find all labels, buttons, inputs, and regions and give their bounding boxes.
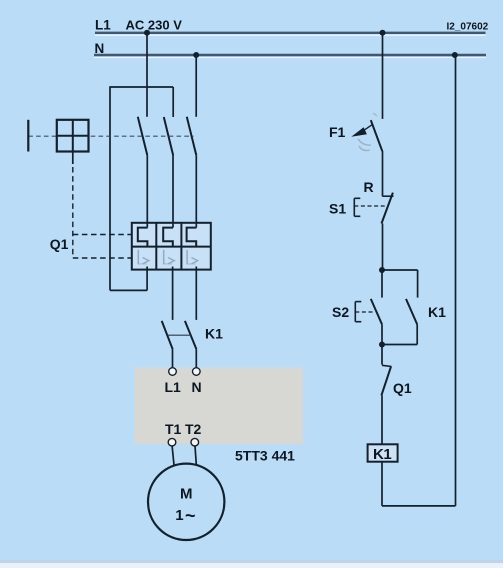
node: branch top xyxy=(379,267,385,273)
svg-text:S1: S1 xyxy=(329,201,346,217)
breaker F1 blade xyxy=(371,120,383,151)
svg-text:M: M xyxy=(180,486,193,503)
svg-text:Q1: Q1 xyxy=(50,236,69,252)
wire: L1 drop to pole 1 xyxy=(146,33,148,117)
S1 fixed contact tick xyxy=(383,195,394,197)
breaker Q1 pole 3 blade xyxy=(187,117,197,156)
wire: left bypass vertical xyxy=(109,86,111,290)
svg-text:F1: F1 xyxy=(329,124,346,140)
wire: top bus of breaker xyxy=(110,86,173,88)
coil K1 box xyxy=(368,444,398,461)
svg-text:N: N xyxy=(95,41,105,56)
thermal element pole 2 xyxy=(163,228,173,247)
svg-text:T1: T1 xyxy=(165,421,182,437)
wire: bypass bottom horizontal xyxy=(110,289,147,291)
wire: F1 to S1 xyxy=(382,151,384,196)
wire: pole 1 to trip block xyxy=(146,155,148,227)
svg-text:~: ~ xyxy=(185,506,196,526)
breaker Q1 pole 2 blade xyxy=(164,117,173,156)
trip block row divider xyxy=(132,246,211,248)
S2 actuator xyxy=(355,302,361,322)
wire: S2 bottom xyxy=(381,324,383,344)
node: L1 tap main circuit xyxy=(144,30,150,36)
K1 aux blade (NO) xyxy=(406,299,417,325)
breaker F1 mechanism sketch xyxy=(358,113,377,151)
power rail L1 xyxy=(95,33,486,36)
S2 actuator dashed link xyxy=(355,311,375,313)
wire: pole 2 to trip block xyxy=(172,156,174,228)
breaker F1 trip arrow xyxy=(351,127,367,137)
svg-text:T2: T2 xyxy=(185,421,202,437)
trip link dashed upper xyxy=(73,234,132,236)
wire: S2 top stub xyxy=(381,270,383,298)
wire: pole 1 block exit to loop xyxy=(146,267,148,291)
Q1 aux fixed tick xyxy=(382,365,392,366)
svg-text:K1: K1 xyxy=(205,326,223,342)
thermal element pole 3 xyxy=(187,228,197,247)
mechanical linkage dashed xyxy=(28,135,193,137)
node: L1 tap control xyxy=(380,30,386,36)
S2 blade (NO) xyxy=(371,299,382,325)
wire: S1 to branch node xyxy=(382,224,384,271)
wire: coil to bottom xyxy=(381,462,383,506)
svg-text:1: 1 xyxy=(175,507,183,524)
svg-text:K1: K1 xyxy=(428,304,446,320)
svg-text:Q1: Q1 xyxy=(393,380,412,396)
terminal T2 circle xyxy=(191,438,199,446)
node: N tap main circuit xyxy=(193,52,199,58)
svg-text:5TT3 441: 5TT3 441 xyxy=(235,448,295,464)
wire: K1 aux bottom xyxy=(416,324,418,344)
operator drop solid xyxy=(72,152,74,165)
breaker Q1 pole 1 blade xyxy=(138,117,148,156)
wire: control drop from L1 xyxy=(382,33,384,119)
wire: pole 2 block exit xyxy=(172,267,174,320)
magnetic trip I> pole 2 xyxy=(164,250,175,264)
wire: branch bottom horizontal xyxy=(382,344,417,346)
svg-text:N: N xyxy=(192,379,202,395)
trip block column divider 2 xyxy=(180,223,182,270)
operator drop dashed xyxy=(72,167,74,258)
trip block column divider 1 xyxy=(155,223,157,270)
wire: bottom return horizontal xyxy=(382,505,456,507)
S1 blade (NC) xyxy=(382,193,393,224)
terminal N circle xyxy=(193,368,201,376)
node: N tap control xyxy=(452,52,458,58)
svg-text:R: R xyxy=(364,179,374,195)
wire: T2 to motor xyxy=(195,446,196,465)
motor M circle xyxy=(148,464,224,540)
trip link dashed lower xyxy=(73,257,132,259)
wire: branch top horizontal xyxy=(382,269,418,271)
wire: N drop to pole 3 xyxy=(195,55,197,117)
trip block body xyxy=(132,223,211,270)
terminal T1 circle xyxy=(168,438,176,446)
power rail N xyxy=(94,55,486,58)
terminal L1 circle xyxy=(169,368,177,376)
wire: pole 2 top stub xyxy=(172,87,174,117)
svg-text:S2: S2 xyxy=(332,304,349,320)
wire: pole 3 block exit xyxy=(195,267,197,320)
trip block outline xyxy=(132,223,211,270)
wire: T1 to motor xyxy=(172,446,174,465)
contactor K1 pole N blade xyxy=(185,321,197,349)
gray device box 5TT3 441 xyxy=(134,367,303,443)
magnetic trip I> pole 3 xyxy=(187,250,198,264)
svg-text:L1: L1 xyxy=(165,379,182,395)
linkage end bar xyxy=(27,120,29,152)
breaker F1 arrow tail xyxy=(364,125,372,130)
node: branch bottom xyxy=(379,342,385,348)
thermal element pole 1 xyxy=(138,228,148,247)
magnetic trip I> pole 1 xyxy=(138,250,149,264)
svg-text:K1: K1 xyxy=(373,446,391,463)
wire: K1 pole N to terminal xyxy=(195,349,197,367)
contactor K1 pole L blade xyxy=(162,321,173,349)
wire: pole 3 to trip block xyxy=(195,155,197,227)
svg-text:I2_07602: I2_07602 xyxy=(447,22,489,33)
svg-text:L1: L1 xyxy=(95,18,111,33)
wire: right riser to N xyxy=(455,55,457,506)
Q1 aux blade (NC) xyxy=(381,367,391,396)
bottom edge border xyxy=(0,560,503,568)
manual operator square xyxy=(57,120,89,152)
wire: K1 aux branch drop xyxy=(417,270,419,298)
svg-text:AC 230 V: AC 230 V xyxy=(126,18,183,33)
S1 actuator xyxy=(354,198,360,216)
contactor K1 link xyxy=(168,334,191,336)
wire: node to Q1 aux xyxy=(381,345,383,365)
S1 actuator dashed link xyxy=(354,205,387,207)
wire: Q1 aux to coil xyxy=(381,395,383,444)
wire: K1 pole L to terminal xyxy=(172,349,174,367)
